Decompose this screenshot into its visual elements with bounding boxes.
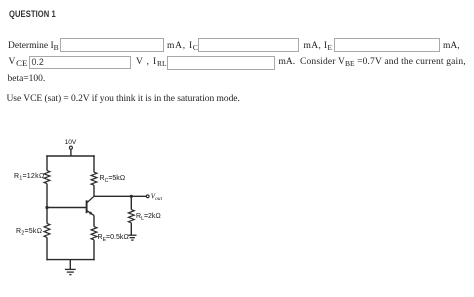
row 4 text xyxy=(7,94,240,104)
resistor RE xyxy=(91,227,97,240)
supply terminal 10V xyxy=(69,146,72,156)
input box IRL xyxy=(167,56,275,70)
row 2 text: V , IRL xyxy=(136,57,167,69)
row 1 text: Determine IB xyxy=(8,41,59,53)
wire left rail upper xyxy=(46,155,48,170)
input box IB xyxy=(60,38,164,52)
wire top rail xyxy=(46,155,94,157)
input box IE xyxy=(334,38,440,52)
row 1 text: mA, IE xyxy=(304,41,333,53)
wire emitter lead xyxy=(93,215,95,226)
svg-text:R2=5kΩ: R2=5kΩ xyxy=(16,228,42,237)
transistor Q1 xyxy=(87,196,94,215)
svg-text:Vout: Vout xyxy=(151,192,163,202)
input box VCE value 0.2 xyxy=(29,56,132,69)
svg-text:RL=2kΩ: RL=2kΩ xyxy=(136,213,161,222)
wire left rail lower xyxy=(46,237,48,260)
wire RL upper lead xyxy=(130,196,132,209)
resistor RL xyxy=(128,210,134,223)
heading QUESTION 1 xyxy=(9,9,56,20)
wire base xyxy=(47,207,87,209)
input box IC xyxy=(198,38,300,52)
ground main xyxy=(65,260,76,275)
wire middle rail upper xyxy=(93,155,95,172)
svg-text:10V: 10V xyxy=(65,139,77,146)
terminal Vout xyxy=(146,195,149,198)
wire collector lead xyxy=(93,185,95,196)
svg-text:RC=5kΩ: RC=5kΩ xyxy=(100,175,126,184)
wire RL lower lead xyxy=(130,223,132,235)
row 1 text: mA, IC xyxy=(167,41,198,53)
row 2 text: VCE xyxy=(9,57,28,68)
wire left rail middle xyxy=(46,184,48,224)
resistor R1 xyxy=(44,171,50,184)
wire Vout xyxy=(94,195,146,197)
resistor R2 xyxy=(44,223,50,237)
wire middle rail lower xyxy=(93,240,95,260)
node RL tap dot xyxy=(130,195,133,198)
row 3 text xyxy=(8,74,46,84)
wire bottom rail xyxy=(46,259,94,261)
svg-text:R1=12kΩ: R1=12kΩ xyxy=(14,173,44,182)
row 1 text: mA, xyxy=(443,41,460,51)
resistor RC xyxy=(91,172,97,185)
node base junction dot xyxy=(45,206,48,209)
svg-text:RE=0.5kΩ: RE=0.5kΩ xyxy=(98,234,129,243)
row 2 text: mA. Consider VBE xyxy=(279,57,296,67)
ground RL xyxy=(128,235,136,240)
